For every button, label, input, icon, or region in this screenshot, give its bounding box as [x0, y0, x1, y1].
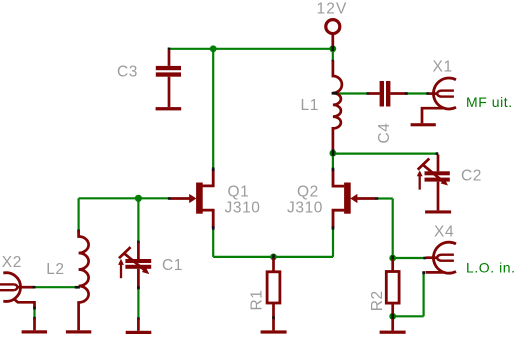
- svg-text:MF uit.: MF uit.: [466, 94, 513, 110]
- wire Q2 source down: [332, 229, 334, 257]
- wire X2 shield to ground: [33, 308, 35, 319]
- inductor L2: [75, 230, 89, 331]
- svg-text:12V: 12V: [317, 1, 348, 18]
- wire X4 shield down: [423, 274, 425, 317]
- node junction L1 / C2 / Q2 drain: [330, 150, 337, 157]
- node junction 12V / top rail: [329, 45, 336, 52]
- wire Q1 source down: [212, 229, 214, 257]
- wire R2 top to X4 pin: [393, 257, 425, 259]
- wire X4 shield to R2 bottom: [393, 315, 424, 317]
- wire source rail: [213, 256, 333, 258]
- wire drain rail L1 bottom to C2: [333, 153, 437, 155]
- resistor R2: [386, 256, 399, 331]
- capacitor C3: [156, 48, 181, 108]
- ground X2: [22, 330, 47, 333]
- node junction source rail / R1: [270, 254, 277, 261]
- wire top rail from C3 to 12V: [169, 48, 333, 50]
- transistor Q1 J310: [168, 167, 215, 229]
- wire C1 riser: [137, 198, 139, 242]
- svg-text:J310: J310: [225, 200, 261, 217]
- svg-text:L1: L1: [301, 97, 319, 114]
- svg-text:R2: R2: [369, 290, 386, 311]
- wire C1 bottom to ground: [137, 288, 139, 319]
- inductor L1: [332, 60, 342, 156]
- wire L1 bottom to Q2 drain: [332, 154, 334, 170]
- ground C1: [126, 331, 152, 334]
- svg-text:R1: R1: [249, 289, 266, 310]
- svg-text:C4: C4: [376, 122, 393, 143]
- wire Q2 gate to R2: [378, 197, 393, 199]
- transistor Q2 J310: [332, 168, 379, 230]
- wire gate rail corner down to L2: [77, 198, 79, 230]
- node junction gate rail / C1: [135, 195, 142, 202]
- wire C4 to X1: [406, 92, 428, 94]
- wire X2 pin to L2 tap: [35, 286, 78, 288]
- svg-text:X4: X4: [434, 224, 454, 241]
- svg-text:C3: C3: [117, 63, 138, 80]
- connector X4 BNC: [422, 242, 456, 274]
- connector X2 BNC: [0, 273, 36, 331]
- resistor R1: [267, 255, 280, 331]
- svg-text:Q2: Q2: [297, 183, 319, 200]
- svg-text:C2: C2: [461, 168, 482, 185]
- svg-text:X1: X1: [433, 59, 453, 76]
- wire Q2 gate riser down: [392, 199, 394, 259]
- svg-text:X2: X2: [2, 254, 22, 271]
- wire gate rail L2 to Q1 gate: [79, 197, 170, 199]
- ground R2: [380, 331, 406, 334]
- svg-text:Q1: Q1: [228, 183, 250, 200]
- svg-text:J310: J310: [287, 200, 323, 217]
- connector X1 BNC: [422, 78, 456, 123]
- node junction R2 top / X4 pin: [389, 255, 396, 262]
- ground L2: [66, 330, 91, 333]
- ground C3: [156, 107, 182, 110]
- ground X1: [411, 123, 436, 126]
- trimmer capacitor C1: [118, 241, 151, 331]
- ground C2: [425, 210, 451, 213]
- wire Q1 drain riser: [212, 49, 214, 170]
- trimmer capacitor C2: [417, 152, 450, 210]
- svg-text:L2: L2: [46, 261, 64, 278]
- supply 12V: [326, 20, 340, 51]
- svg-text:C1: C1: [162, 257, 183, 274]
- capacitor C4: [367, 81, 408, 107]
- node junction R2 bottom / X4 shield: [389, 313, 396, 320]
- wire 12V stub to L1: [332, 49, 334, 61]
- ground R1: [261, 330, 287, 333]
- wire L1 tap to C4: [334, 92, 368, 94]
- node junction top rail / Q1 drain: [210, 45, 217, 52]
- svg-text:L.O. in.: L.O. in.: [466, 260, 516, 276]
